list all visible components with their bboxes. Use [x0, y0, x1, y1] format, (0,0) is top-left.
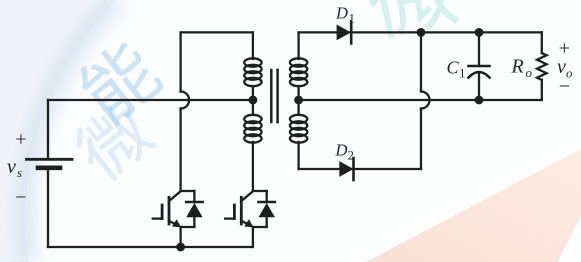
- wire: bottom rail: [48, 246, 253, 248]
- wire: top rail (secondary to Ro): [299, 31, 542, 33]
- svg-text:D: D: [335, 140, 348, 159]
- wire: vertical A lower (hop to Q1 collector): [179, 109, 181, 192]
- transformer secondary top winding: [290, 58, 307, 86]
- node: top rail / vertical B: [417, 28, 426, 37]
- wire: top-left horizontal: [181, 31, 253, 33]
- svg-text:+: +: [559, 37, 570, 59]
- transformer primary bottom winding: [244, 115, 261, 143]
- svg-text:+: +: [15, 129, 26, 151]
- node: primary center tap: [249, 96, 258, 105]
- resistor Ro zigzag: [537, 53, 547, 80]
- wire: primary bottom lead to Q2 collector: [252, 142, 254, 191]
- svg-text:C: C: [447, 58, 460, 78]
- wire: secondary bottom lead to D2 rail: [297, 142, 299, 169]
- node: top rail / C1: [475, 28, 484, 37]
- wire: D2 bottom rail: [299, 168, 421, 170]
- svg-text:v: v: [7, 156, 16, 178]
- svg-text:−: −: [559, 76, 570, 98]
- svg-text:R: R: [511, 56, 524, 78]
- swoosh edge band: [26, 0, 117, 262]
- svg-text:1: 1: [459, 66, 466, 81]
- wire: Ro top lead: [541, 32, 543, 53]
- wire: C1 top lead: [478, 32, 480, 66]
- svg-text:1: 1: [349, 10, 356, 25]
- diode D2 cathode bar: [352, 158, 355, 180]
- battery VS short plate: [38, 166, 60, 171]
- wire: middle horizontal left (battery + to primary center tap): [48, 99, 253, 101]
- diode D1 cathode bar: [350, 21, 353, 43]
- pink wedge bottom-right: [366, 149, 581, 262]
- node: middle rail / C1: [475, 96, 484, 105]
- battery VS long plate: [27, 158, 73, 161]
- svg-text:s: s: [17, 165, 22, 180]
- diode DQ1 triangle (antiparallel): [186, 203, 202, 217]
- wire: vertical A upper (top-left to hop): [179, 32, 181, 91]
- transformer core line 1: [270, 70, 273, 122]
- diode DQ2 triangle (antiparallel): [259, 203, 275, 217]
- wire: secondary top lead: [297, 32, 299, 59]
- wire: Ro bottom lead: [541, 80, 543, 100]
- Q1 emitter arrowhead: [172, 219, 181, 227]
- IGBT Q2: [225, 191, 275, 247]
- svg-text:D: D: [335, 3, 348, 22]
- wire hop B over middle rail: [421, 92, 430, 109]
- transformer secondary bottom winding: [290, 115, 307, 143]
- diode D2 triangle: [339, 161, 353, 177]
- capacitor C1 flat plate: [469, 65, 490, 68]
- wire: primary center tap lead: [252, 86, 254, 115]
- svg-text:o: o: [526, 65, 533, 80]
- diode D1 triangle: [337, 25, 351, 41]
- watermark glyph cyan top-right: [360, 0, 461, 41]
- wire: primary top lead: [252, 32, 254, 59]
- wire: middle rail right (center tap to Ro bottom): [299, 99, 542, 101]
- wire hop A over middle wire: [181, 92, 190, 109]
- wire: C1 bottom lead: [478, 73, 480, 100]
- svg-text:2: 2: [348, 147, 355, 162]
- wire: vertical B lower (hop to D2 rail): [420, 109, 422, 170]
- node: secondary center tap: [294, 96, 303, 105]
- capacitor C1 curved plate: [469, 72, 490, 78]
- watermark glyph blue upper: [72, 34, 167, 129]
- svg-text:−: −: [15, 187, 26, 209]
- wire: secondary center tap lead: [297, 86, 299, 115]
- wire: left rail bottom (battery - down): [47, 169, 49, 247]
- transformer core line 2: [276, 70, 279, 122]
- watermark glyph blue lower: [67, 95, 159, 187]
- node: bottom rail / Q1 emitter: [176, 243, 185, 252]
- wire: left rail top (battery + up): [47, 100, 49, 159]
- IGBT Q1: [153, 191, 203, 247]
- transformer primary top winding: [244, 58, 261, 86]
- wire: vertical B upper (top rail to hop): [420, 32, 422, 91]
- left light-blue swoosh: [0, 0, 117, 262]
- Q2 emitter arrowhead: [244, 219, 253, 227]
